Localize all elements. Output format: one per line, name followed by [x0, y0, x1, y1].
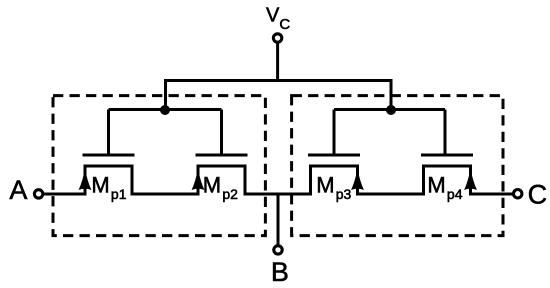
svg-text:A: A	[9, 175, 27, 205]
svg-text:C: C	[528, 180, 548, 210]
svg-text:B: B	[271, 257, 289, 287]
